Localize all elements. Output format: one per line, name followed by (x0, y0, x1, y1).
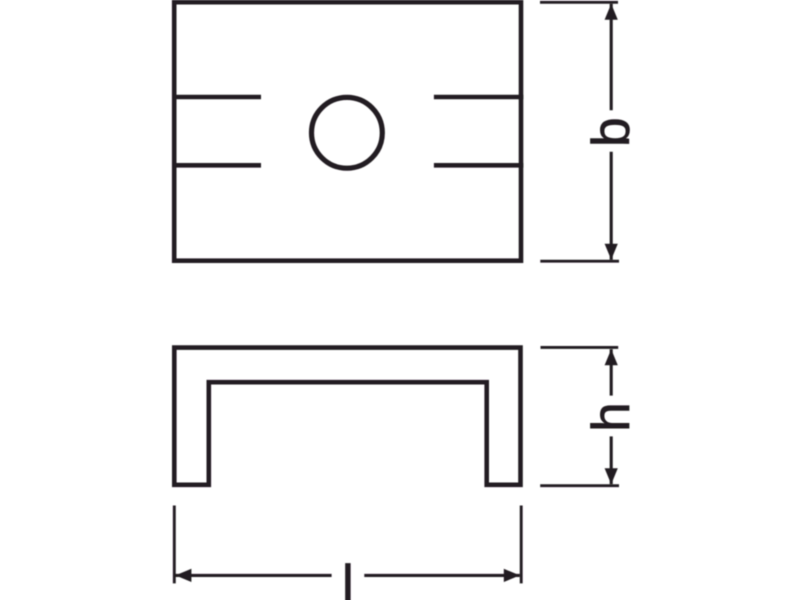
top view: lower left slot line (172, 163, 261, 168)
bottom view: U-channel profile outline (174, 348, 520, 485)
top view: upper left slot line (172, 95, 261, 100)
svg-text:l: l (342, 555, 354, 600)
svg-text:h: h (582, 402, 641, 431)
dimension l: left extension line (173, 506, 176, 584)
top view: upper right slot line (434, 95, 523, 100)
dimension h: lower arrowhead (605, 468, 618, 484)
dimension h: bottom extension line (540, 484, 619, 487)
dimension l: dimension line left segment (175, 574, 331, 577)
dimension b: dimension line upper segment (610, 4, 613, 111)
dimension l: left arrowhead (175, 569, 191, 582)
top view: clamp plate outline (174, 2, 521, 261)
dimension b: lower arrowhead (605, 244, 618, 260)
dimension b: top extension line (540, 1, 618, 4)
svg-text:b: b (582, 117, 641, 146)
dimension h: dimension line lower segment (610, 436, 613, 484)
dimension h: top extension line (541, 346, 619, 349)
dimension b: dimension line lower segment (610, 152, 613, 260)
dimension b: upper arrowhead (605, 4, 618, 20)
dimension h: upper arrowhead (605, 349, 618, 365)
dimension b: bottom extension line (540, 260, 619, 263)
dimension l: right arrowhead (504, 569, 520, 582)
dimension h: dimension line upper segment (610, 349, 613, 395)
dimension l: dimension line right segment (364, 574, 520, 577)
top view: lower right slot line (434, 163, 523, 168)
top view: screw hole (312, 97, 383, 168)
dimension l: right extension line (520, 506, 523, 584)
